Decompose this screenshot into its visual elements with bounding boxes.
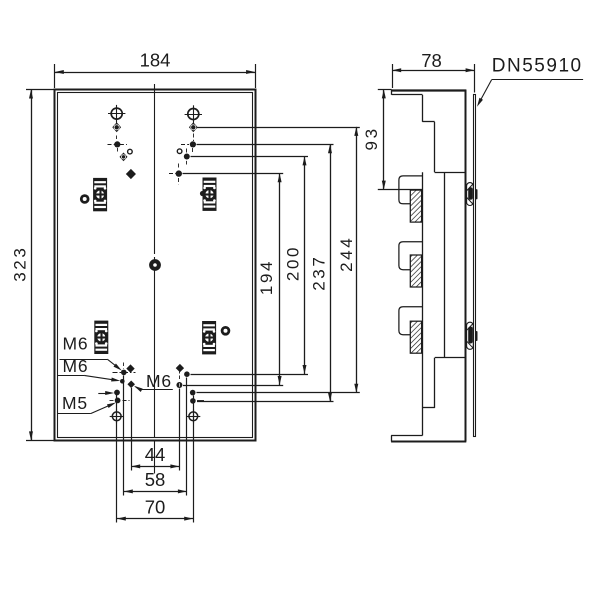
- svg-text:237: 237: [309, 255, 328, 291]
- svg-text:M6: M6: [63, 334, 89, 354]
- svg-text:M6: M6: [146, 371, 172, 391]
- svg-text:244: 244: [337, 236, 356, 272]
- svg-text:194: 194: [257, 259, 276, 295]
- svg-text:DN55910: DN55910: [492, 56, 583, 77]
- svg-text:44: 44: [145, 444, 166, 465]
- svg-text:58: 58: [145, 469, 166, 490]
- svg-text:78: 78: [421, 50, 442, 71]
- svg-text:323: 323: [11, 246, 30, 282]
- svg-text:93: 93: [362, 126, 381, 150]
- svg-text:70: 70: [145, 496, 166, 517]
- svg-text:M5: M5: [62, 393, 88, 413]
- svg-text:M6: M6: [63, 356, 89, 376]
- svg-text:200: 200: [283, 245, 302, 281]
- svg-text:184: 184: [140, 50, 171, 71]
